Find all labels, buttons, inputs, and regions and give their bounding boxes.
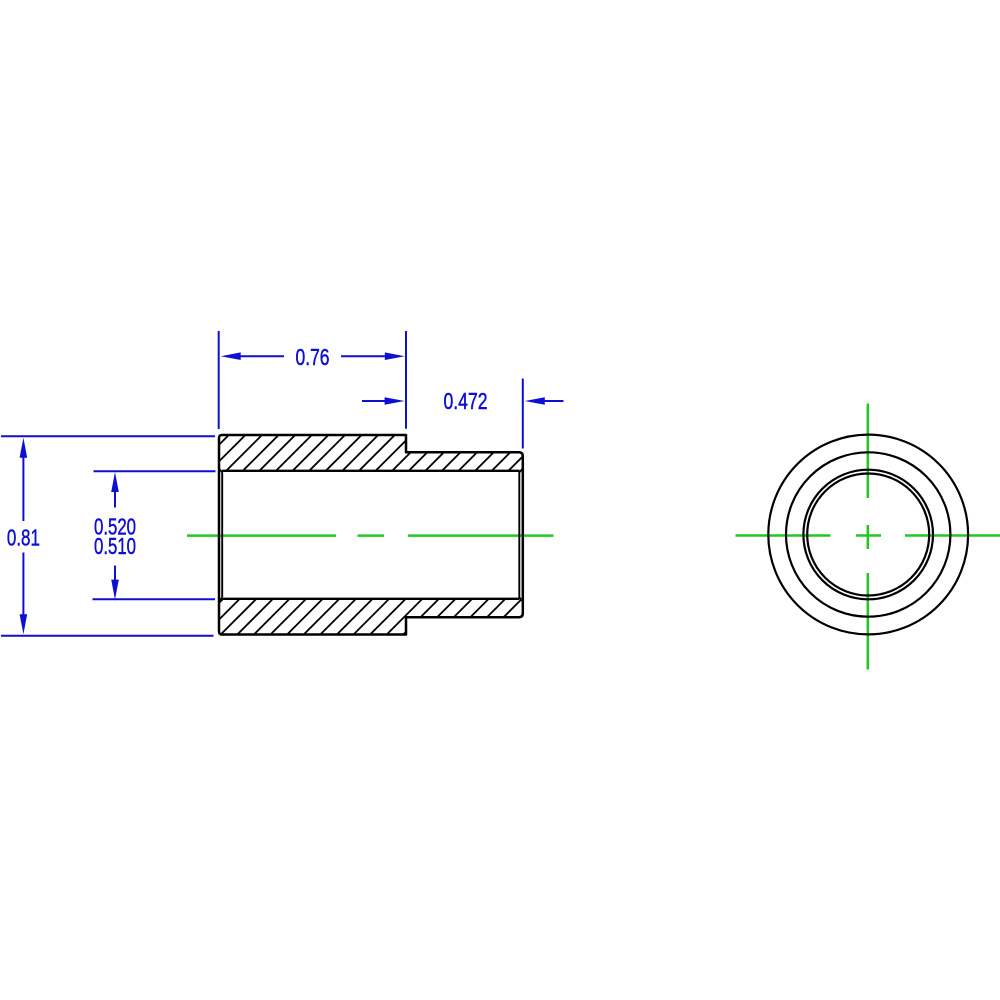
hatching bottom wall [171, 599, 572, 635]
dim 0.76 extension line left [218, 331, 220, 429]
svg-text:0.472: 0.472 [444, 388, 488, 414]
dim 0.520 arrow up [114, 490, 116, 508]
left face chamfer edge line [221, 472, 223, 597]
dim 0.81 dimension line + arrows [22, 455, 24, 521]
bore chamfer diagonals [219, 469, 222, 473]
dim 0.76 extension line right [405, 331, 407, 429]
dim 0.520 extension line top [94, 470, 216, 472]
dim 0.76 arrow left [221, 352, 241, 360]
dim 0.472 arrow line left [362, 400, 385, 402]
hatching top wall [176, 435, 560, 471]
dim 0.81 extension line top [1, 435, 215, 437]
svg-text:0.81: 0.81 [7, 524, 40, 550]
dim 0.81 extension line bottom [1, 635, 214, 637]
bore circle [807, 474, 929, 596]
bushing outer profile side view [219, 435, 523, 635]
bore bottom line [222, 598, 519, 600]
dim 0.76 dimension line [238, 355, 284, 357]
dim 0.520 arrow down [114, 566, 116, 581]
centerline circle view vertical [867, 404, 870, 670]
centerline side view (horizontal dash-dot) [187, 534, 554, 537]
centerline circle view horizontal [736, 534, 1000, 537]
svg-text:0.510: 0.510 [94, 533, 136, 559]
middle circle (small OD) [786, 452, 950, 616]
dim 0.472 arrow line right [543, 400, 564, 402]
right face chamfer edge line [518, 470, 520, 599]
dim 0.76 arrow right [385, 352, 405, 360]
bore top line [222, 470, 519, 472]
chamfer circle [803, 470, 933, 600]
outer circle (large OD) [768, 435, 968, 635]
dim 0.520 extension line bottom [93, 598, 216, 600]
dim 0.472 extension line right [522, 379, 524, 449]
svg-text:0.76: 0.76 [296, 344, 330, 370]
